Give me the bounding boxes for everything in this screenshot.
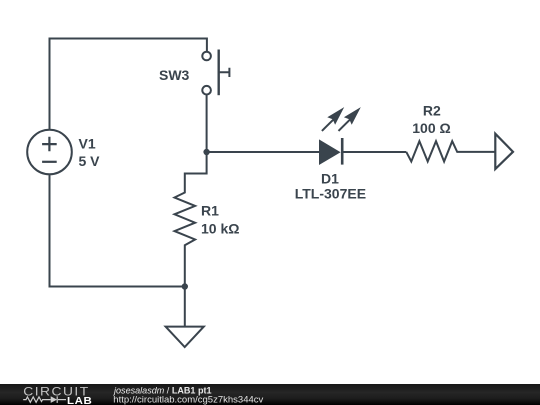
svg-text:100 Ω: 100 Ω: [412, 120, 450, 136]
svg-text:D1: D1: [321, 170, 339, 186]
svg-text:R1: R1: [201, 203, 219, 219]
svg-text:10 kΩ: 10 kΩ: [201, 221, 239, 237]
svg-text:http://circuitlab.com/cg5z7khs: http://circuitlab.com/cg5z7khs344cv: [113, 394, 263, 405]
svg-text:SW3: SW3: [159, 67, 190, 83]
svg-text:LTL-307EE: LTL-307EE: [295, 186, 366, 202]
svg-text:R2: R2: [423, 103, 441, 119]
svg-text:LAB: LAB: [67, 396, 92, 405]
svg-text:V1: V1: [79, 136, 96, 152]
svg-text:5 V: 5 V: [79, 153, 101, 169]
